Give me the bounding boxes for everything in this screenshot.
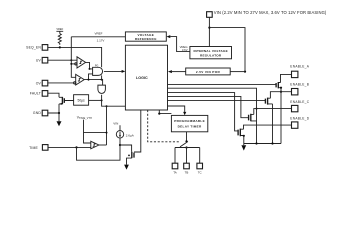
wire VIN rail to right xyxy=(209,28,246,73)
wire TIME comparator output xyxy=(99,144,107,146)
svg-text:VIN (2.2V MIN TO 27V MAX, 3.6V: VIN (2.2V MIN TO 27V MAX, 3.6V TO 12V FO… xyxy=(214,10,327,15)
wire logic stub to timer corner xyxy=(158,110,171,115)
wire logic to discharge gate xyxy=(134,110,141,152)
wire FAULT xyxy=(48,93,59,97)
transistor Q3 (enable A) xyxy=(276,82,282,89)
wire enable A xyxy=(281,74,292,82)
pin VIN xyxy=(207,10,327,17)
wire node to discharge drain xyxy=(120,145,132,152)
block 2.5V VIN POR xyxy=(186,68,231,75)
wire logic bus D gate xyxy=(168,93,239,131)
wire VREG 3.6V xyxy=(166,35,190,52)
svg-text:2.6µA: 2.6µA xyxy=(126,133,134,137)
block voltage reference xyxy=(125,32,166,41)
wire POR to logic xyxy=(168,70,186,73)
wire enable D xyxy=(244,125,292,129)
wire UV comparator output xyxy=(86,62,93,70)
svg-text:ENABLE_C: ENABLE_C xyxy=(290,100,309,104)
svg-text:VREF: VREF xyxy=(94,31,102,35)
svg-text:OV: OV xyxy=(36,81,42,85)
pin TC xyxy=(197,163,203,175)
wire enable B xyxy=(270,92,291,99)
comparator U5 (TIME) xyxy=(91,141,99,149)
resistor R1 (VREF pull-up on SEQ_EN) xyxy=(58,34,61,45)
wire TIME to comparator xyxy=(48,146,91,148)
wire 50us to U4 output xyxy=(89,99,102,101)
svg-text:TB: TB xyxy=(185,171,189,175)
pin TIME xyxy=(29,145,48,151)
svg-text:PROGRAMMABLE: PROGRAMMABLE xyxy=(174,119,205,123)
svg-text:SEQ_EN: SEQ_EN xyxy=(26,46,41,50)
node VTIME_VTH xyxy=(77,116,92,143)
svg-text:TA: TA xyxy=(173,171,177,175)
wire logic bus B gate xyxy=(168,99,266,101)
svg-text:REFERENCE: REFERENCE xyxy=(135,37,157,41)
transistor Q6 (enable D) xyxy=(238,129,245,137)
wire logic bus 2 xyxy=(168,88,258,143)
svg-text:ENABLE_D: ENABLE_D xyxy=(290,116,309,120)
svg-text:VREF: VREF xyxy=(56,27,63,31)
svg-text:LOGIC: LOGIC xyxy=(136,76,148,80)
delay block 50us xyxy=(74,95,89,106)
wire PG to logic xyxy=(104,70,125,73)
transistor Q2 (TIME discharge) xyxy=(127,152,141,165)
wire A source to rail xyxy=(280,88,282,144)
wire OV comparator output xyxy=(84,74,102,85)
comparator U1 (UV) xyxy=(75,57,86,68)
pin TA xyxy=(172,163,178,175)
pin GND xyxy=(33,110,48,116)
wire VREF vertical to comparators xyxy=(70,37,75,78)
pin ENABLE_D xyxy=(290,116,309,128)
svg-text:INTERNAL VOLTAGE: INTERNAL VOLTAGE xyxy=(193,49,227,53)
wire enable C xyxy=(254,109,292,115)
ground xyxy=(241,145,246,150)
pin ENABLE_A xyxy=(290,65,309,78)
wire U4 output to logic xyxy=(101,95,126,107)
wire VIN vertical to regulator xyxy=(208,17,210,46)
wire comparator feedback loop xyxy=(84,106,108,145)
svg-text:REGULATOR: REGULATOR xyxy=(200,54,222,58)
pin UV xyxy=(36,57,48,63)
svg-text:ENABLE_B: ENABLE_B xyxy=(290,82,309,86)
wire B source to rail xyxy=(272,104,274,144)
svg-text:1.17V: 1.17V xyxy=(97,39,105,43)
wire logic bus C gate xyxy=(168,96,249,117)
wire UV to comparator xyxy=(48,59,77,61)
wire OV to comparator xyxy=(48,82,76,84)
pin SEQ_EN xyxy=(26,45,48,51)
pin TB xyxy=(184,163,190,175)
pin ENABLE_B xyxy=(290,82,309,95)
wire logic dashed to selector xyxy=(148,110,179,142)
svg-text:2.5V VIN POR: 2.5V VIN POR xyxy=(196,70,221,74)
and-gate U4 (vertical) xyxy=(98,85,106,93)
svg-text:UV: UV xyxy=(36,58,42,62)
transistor Q4 (enable B) xyxy=(265,98,272,105)
wire POR to VIN xyxy=(230,71,245,73)
pin ENABLE_C xyxy=(290,100,309,112)
wire GND xyxy=(48,104,60,121)
wire logic to delay timer xyxy=(168,106,187,115)
and-gate U3 (PG) xyxy=(93,64,103,75)
svg-text:50µs: 50µs xyxy=(77,99,85,103)
svg-text:GND: GND xyxy=(33,111,41,115)
svg-text:TIME: TIME xyxy=(29,146,38,150)
svg-text:VIN: VIN xyxy=(113,121,118,125)
switch S1 (timer select) xyxy=(175,132,200,163)
svg-text:FAULT: FAULT xyxy=(30,92,41,96)
wire SEQ_EN xyxy=(48,46,102,67)
wire D source to ground rail xyxy=(244,136,281,146)
block logic xyxy=(125,45,167,110)
ground xyxy=(124,165,129,170)
wire VREF 1.17V to reference box xyxy=(71,31,125,42)
pin OV xyxy=(36,80,48,86)
current source I1 2.6uA xyxy=(113,121,133,138)
svg-text:3.6V: 3.6V xyxy=(182,48,188,52)
wire logic bus A gate xyxy=(168,83,277,85)
block programmable delay timer xyxy=(171,115,207,131)
wire SEQ_EN lower segment xyxy=(101,75,103,79)
comparator U2 (OV) xyxy=(74,74,85,85)
ground xyxy=(57,121,62,126)
transistor Q1 (FAULT pull-down) xyxy=(59,97,74,105)
svg-text:DELAY TIMER: DELAY TIMER xyxy=(178,124,202,128)
transistor Q5 (enable C) xyxy=(249,114,257,121)
block internal voltage regulator xyxy=(190,47,232,59)
wire TIME loop below xyxy=(77,138,122,160)
svg-text:VTIME_VTH: VTIME_VTH xyxy=(77,116,92,121)
node VREF supply bar xyxy=(56,27,63,33)
svg-text:TC: TC xyxy=(198,171,202,175)
pin FAULT xyxy=(30,91,48,97)
svg-text:ENABLE_A: ENABLE_A xyxy=(290,65,309,69)
